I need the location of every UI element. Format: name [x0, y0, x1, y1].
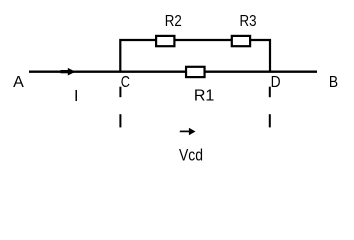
- resistor R3: [232, 36, 250, 46]
- svg-text:C: C: [121, 74, 130, 91]
- svg-text:Vcd: Vcd: [179, 145, 203, 164]
- svg-text:R1: R1: [194, 87, 215, 104]
- resistor R1: [186, 67, 205, 77]
- current arrow on wire A-C: [61, 68, 76, 76]
- svg-text:I: I: [74, 88, 78, 105]
- svg-text:R3: R3: [240, 13, 257, 30]
- svg-text:D: D: [271, 74, 281, 91]
- svg-text:A: A: [13, 74, 24, 91]
- Vcd direction arrow: [180, 128, 196, 135]
- wire: main horizontal A-B: [29, 71, 317, 73]
- dashed line below node C: [119, 87, 121, 128]
- svg-text:B: B: [329, 74, 338, 91]
- dashed line below node D: [269, 87, 271, 128]
- svg-text:R2: R2: [165, 13, 182, 30]
- wire: parallel branch C up, across, down to D: [120, 40, 270, 72]
- resistor R2: [156, 36, 174, 46]
